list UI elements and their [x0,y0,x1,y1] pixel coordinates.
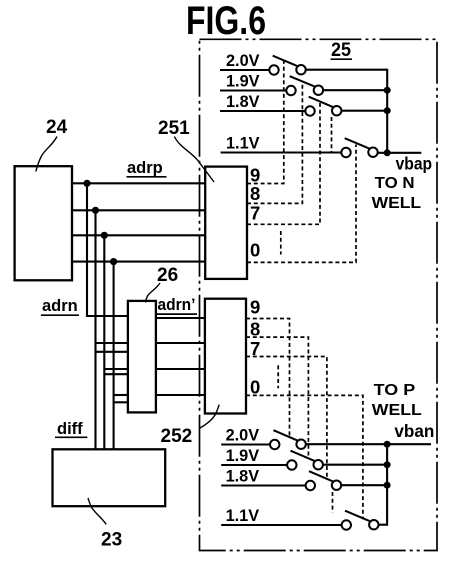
ellipsis mark pins [280,231,282,255]
svg-text:26: 26 [157,265,178,286]
wire adrn column 1 [87,183,128,316]
wire adrn column 2 (down to diff block 23) [94,210,96,449]
junction dots on adrp lines [83,180,90,187]
switch 1.9V top [286,76,323,95]
wire adrp bit lines 24 to 251 [72,182,205,184]
svg-text:0: 0 [250,377,260,398]
svg-text:1.9V: 1.9V [226,446,260,465]
ellipsis mark switches [332,492,334,513]
junction dots on bus [384,87,391,94]
dashed select lines 251 pins to switches [247,61,356,263]
wire vbap bus vertical [386,69,388,153]
block 26 [128,301,156,413]
svg-text:TO N: TO N [375,175,415,192]
svg-text:7: 7 [250,203,260,224]
leader 26 [146,283,161,303]
pin7 to switch 1.8V [247,102,320,225]
switch 2.0V bottom [270,430,306,449]
pin0 to switch 1.1V [246,395,363,519]
svg-text:8: 8 [250,318,260,339]
svg-text:2.0V: 2.0V [226,51,260,70]
switch 1.1V top [341,138,377,157]
wire switch outputs to bus (top) [306,69,388,71]
svg-text:25: 25 [331,40,351,61]
wires 26 to 252 [156,317,205,319]
svg-text:adrp: adrp [127,159,163,177]
pin0 to switch 1.1V [247,145,356,263]
svg-text:8: 8 [250,183,260,204]
svg-text:23: 23 [101,530,122,551]
svg-text:FIG.6: FIG.6 [186,0,266,43]
svg-text:1.1V: 1.1V [226,506,260,525]
ellipsis mark switches [331,117,333,152]
junction dots on bus [384,441,391,448]
svg-text:0: 0 [250,240,260,261]
svg-text:WELL: WELL [372,402,422,419]
block 251 [205,167,247,279]
svg-text:9: 9 [250,297,260,318]
wire taps into block 26 left side [96,342,128,344]
leader 23 [88,498,106,524]
svg-text:1.1V: 1.1V [226,133,260,152]
svg-text:2.0V: 2.0V [226,425,260,444]
block 24 [15,166,72,280]
leader 24 [36,137,57,172]
switch 1.1V bottom [342,511,379,530]
boundary box 25 (two-dot chain) [200,39,438,550]
switch 2.0V top [269,56,305,75]
leader 252 [200,405,219,428]
pin9 to switch 2.0V [246,319,290,438]
svg-text:251: 251 [158,118,190,139]
pin9 to switch 2.0V [247,61,284,184]
switch 1.8V top [305,97,341,116]
svg-text:vbap: vbap [396,153,433,173]
switch 1.9V bottom [287,451,323,470]
svg-text:adrn: adrn [42,297,78,315]
dashed select lines 252 pins to switches [246,319,363,520]
svg-text:adrn’: adrn’ [158,296,196,314]
svg-text:9: 9 [250,164,260,185]
wire switch outputs to bus (bottom) [306,443,431,445]
svg-text:24: 24 [46,117,68,138]
svg-text:1.8V: 1.8V [226,92,260,111]
wire vban bus vertical [386,444,388,526]
wire adrn column 3 [103,235,105,449]
ellipsis mark pins [277,365,279,388]
svg-text:252: 252 [161,426,193,447]
pin8 to switch 1.9V [247,81,302,203]
pin7 to switch 1.8V [246,357,327,479]
svg-text:WELL: WELL [372,195,422,212]
block 252 [205,299,246,414]
wire adrn column 4 [113,262,115,450]
svg-text:diff: diff [57,420,83,438]
svg-text:1.8V: 1.8V [226,466,260,485]
svg-text:1.9V: 1.9V [226,71,260,90]
block 23 [53,449,166,506]
switch 1.8V bottom [306,471,342,490]
pin8 to switch 1.9V [246,337,308,458]
leader 251 [174,137,214,183]
svg-text:TO P: TO P [374,382,416,399]
svg-text:vban: vban [394,421,434,441]
